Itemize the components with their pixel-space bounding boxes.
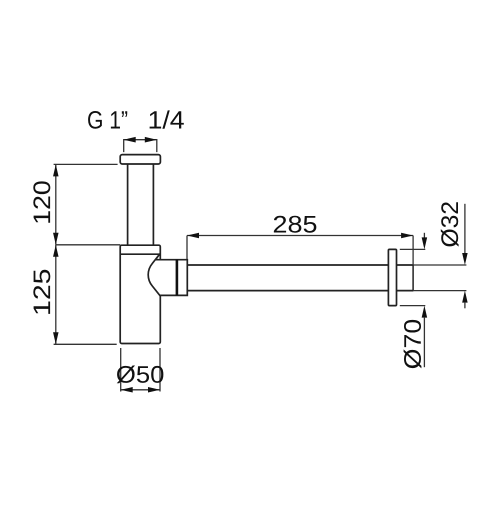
dim diam70 top arrow bbox=[422, 237, 428, 249]
dim diam50 left extension bbox=[120, 348, 122, 392]
outlet tube top wall right part bbox=[397, 264, 414, 266]
dim 125 text bbox=[33, 270, 50, 314]
bracket left arrow bbox=[124, 137, 136, 143]
outlet nut bbox=[148, 254, 187, 296]
nut groove bbox=[176, 260, 179, 296]
outlet tube bottom wall right part bbox=[397, 290, 414, 292]
dim diam70 top leader bbox=[423, 233, 425, 238]
dim 285 text bbox=[274, 216, 316, 233]
dim diam50 right extension bbox=[159, 348, 161, 392]
dim diam70 top extension bbox=[400, 248, 426, 250]
thread size label G 1" 1/4 bbox=[88, 110, 184, 128]
dim diam32 bottom extension bbox=[413, 290, 466, 292]
dim diam32 top extension bbox=[413, 264, 466, 266]
wall flange bbox=[388, 249, 396, 305]
dim 285 right extension bbox=[412, 236, 414, 266]
dim diam32 bottom arrow bbox=[462, 291, 468, 303]
dim 120 text bbox=[33, 181, 50, 222]
dim diam32 top arrow bbox=[462, 253, 468, 265]
outlet tube top wall bbox=[187, 264, 388, 266]
dim 125 bottom arrow bbox=[53, 332, 59, 344]
dim 120 top arrow bbox=[53, 164, 59, 176]
dim diam50 left arrow bbox=[121, 387, 133, 393]
dimension 125 line bbox=[55, 245, 57, 344]
dim diam50 line bbox=[121, 389, 160, 391]
inlet pipe right wall bbox=[152, 164, 154, 245]
inlet pipe left wall bbox=[127, 164, 129, 245]
dimension 120 line bbox=[55, 164, 57, 244]
extension line flange bottom bbox=[54, 163, 118, 165]
dim diam32 bottom leader bbox=[464, 302, 466, 308]
dim diam70 bottom leader bbox=[423, 317, 425, 367]
outlet tube end cap bbox=[412, 265, 414, 291]
dimension 285 line bbox=[187, 235, 413, 237]
bracket right arrow bbox=[145, 137, 157, 143]
dim 285 right arrow bbox=[401, 233, 413, 239]
dim 120 bottom arrow bbox=[53, 233, 59, 245]
dim diam50 text bbox=[117, 366, 164, 384]
dim 285 left extension bbox=[186, 236, 188, 260]
extension line body top bbox=[56, 244, 120, 246]
thread width indicator bracket bbox=[124, 140, 157, 152]
trap body cap line bbox=[120, 253, 160, 255]
dim diam70 text bbox=[404, 320, 422, 369]
dim diam70 bottom arrow bbox=[422, 306, 428, 318]
inlet flange bbox=[120, 155, 160, 164]
dim diam50 right arrow bbox=[148, 387, 160, 393]
dim diam70 bottom extension bbox=[400, 305, 426, 307]
dim 125 top arrow bbox=[53, 245, 59, 257]
dim diam32 text bbox=[441, 202, 459, 246]
dim 285 left arrow bbox=[187, 233, 199, 239]
outlet tube bottom wall bbox=[187, 290, 388, 292]
extension line body bottom bbox=[54, 343, 117, 345]
dim diam32 top leader bbox=[464, 204, 466, 254]
trap body bbox=[120, 245, 160, 343]
